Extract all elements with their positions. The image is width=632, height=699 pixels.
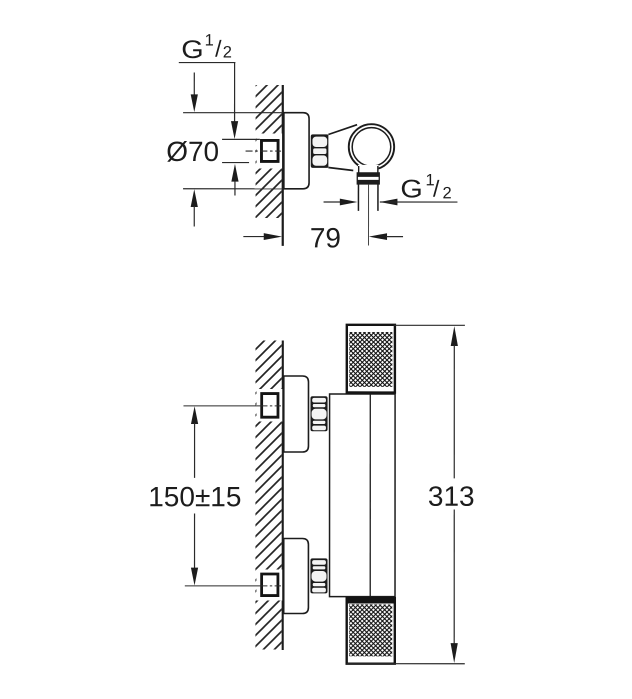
mixer body cone xyxy=(328,125,371,171)
outlet pipe walls xyxy=(357,184,359,211)
upper inlet nipple xyxy=(262,394,278,418)
dimension G 1/2 outlet: left arrow xyxy=(324,201,342,203)
thread extension lines (G 1/2 inlet) xyxy=(222,138,260,140)
svg-text:2: 2 xyxy=(223,43,232,61)
label G 1/2 (top left) xyxy=(179,31,236,64)
up arrow to thread bottom xyxy=(231,164,238,182)
hatch clearance around lower inlet xyxy=(256,569,282,600)
svg-text:150±15: 150±15 xyxy=(148,481,241,512)
lower inlet nipple xyxy=(262,574,278,596)
outlet centerline xyxy=(368,184,370,245)
svg-text:313: 313 xyxy=(428,481,475,512)
right arrow + underline xyxy=(380,199,398,206)
dimension 313 xyxy=(394,324,465,326)
thermostat knob (circle, side view) xyxy=(349,124,394,169)
wall hatching (bottom view) xyxy=(255,340,281,649)
lower extension line + dashes xyxy=(185,585,261,587)
body slab xyxy=(330,394,396,597)
svg-text:79: 79 xyxy=(310,222,341,253)
lower hex nut xyxy=(310,558,327,593)
wall hatching (top view) xyxy=(256,85,282,218)
extension line top of escutcheon (O70 top) xyxy=(183,112,284,114)
label G 1/2 (outlet) xyxy=(400,171,451,203)
outlet neck xyxy=(358,165,379,173)
dimension 79 xyxy=(243,236,265,238)
escutcheon (top view) xyxy=(284,113,309,189)
svg-text:2: 2 xyxy=(443,184,452,202)
union hex nut (top view) xyxy=(311,134,329,168)
inlet nipple (top view, thick square) xyxy=(261,140,278,161)
leader of G 1/2 top with arrow down to thread top xyxy=(234,63,236,122)
outlet hose union nut xyxy=(357,173,379,184)
wall face line xyxy=(282,85,284,246)
dimension 150+-15 xyxy=(191,406,198,424)
wall face line xyxy=(282,340,284,650)
bottom knob xyxy=(347,598,395,664)
hatch clearance around upper inlet xyxy=(256,389,282,422)
upper hex nut xyxy=(310,396,327,431)
extension line bottom of escutcheon (O70 bottom) xyxy=(183,188,283,190)
lower escutcheon xyxy=(284,538,309,613)
svg-text:Ø70: Ø70 xyxy=(166,136,219,167)
dashed centerline of inlet xyxy=(246,150,281,152)
upper escutcheon xyxy=(284,376,309,452)
dimension O70 up arrow xyxy=(191,189,198,207)
hatch clearance around inlet xyxy=(257,133,283,168)
upper extension line + dashes xyxy=(183,405,261,407)
svg-text:G: G xyxy=(181,36,203,64)
top knob xyxy=(347,325,395,393)
svg-text:G: G xyxy=(400,175,422,203)
svg-text:/: / xyxy=(433,176,440,202)
dimension O70 down arrow xyxy=(193,72,195,95)
svg-text:/: / xyxy=(215,35,222,61)
svg-text:1: 1 xyxy=(205,31,214,49)
